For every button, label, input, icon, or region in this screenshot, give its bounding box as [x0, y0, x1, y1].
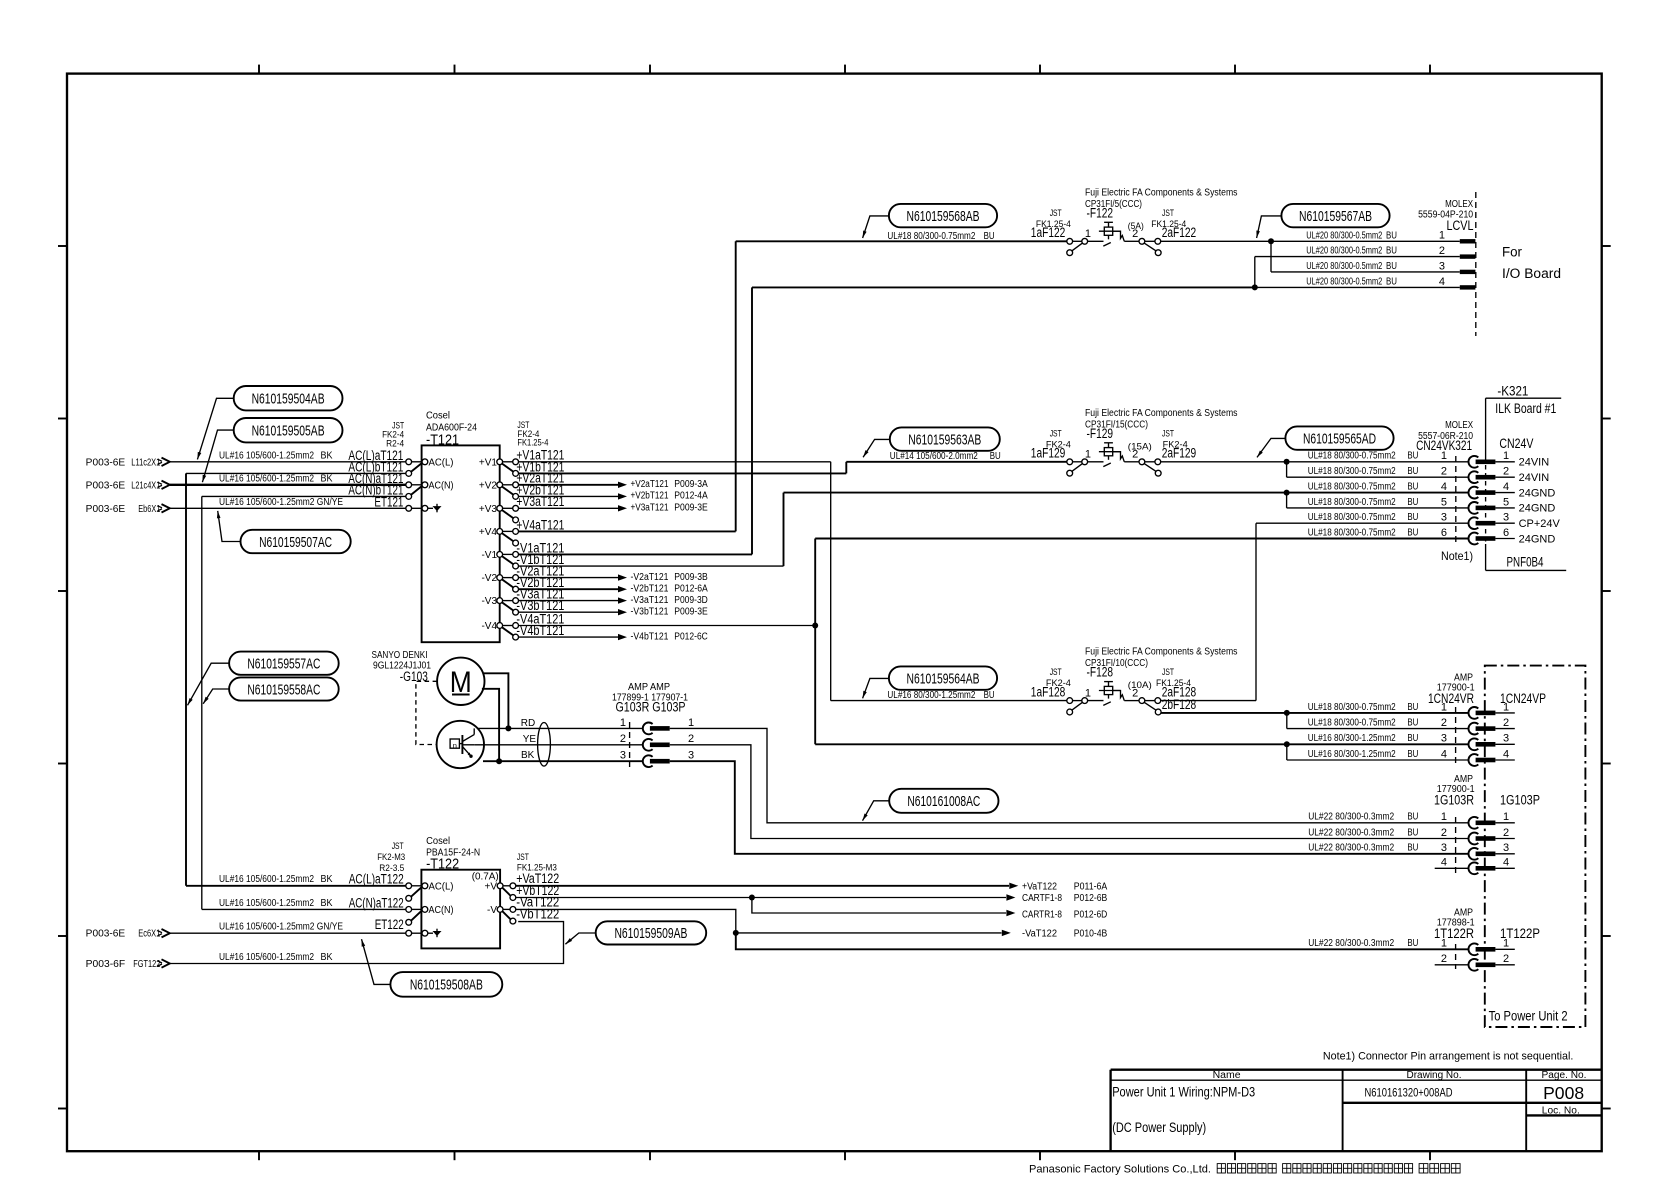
svg-text:UL#20 80/300-0.5mm2: UL#20 80/300-0.5mm2 — [1306, 246, 1382, 257]
title block texts — [1112, 1070, 1586, 1135]
svg-text:1G103R: 1G103R — [1434, 792, 1474, 807]
svg-text:BK: BK — [321, 874, 333, 885]
svg-text:2: 2 — [1439, 245, 1445, 257]
svg-text:UL#16 105/600-1.25mm2: UL#16 105/600-1.25mm2 — [219, 898, 314, 909]
svg-text:AC(L): AC(L) — [429, 881, 454, 892]
svg-text:2: 2 — [1441, 466, 1447, 478]
svg-text:-V3: -V3 — [481, 596, 497, 607]
svg-text:UL#16 105/600-1.25mm2: UL#16 105/600-1.25mm2 — [219, 952, 314, 963]
svg-text:1T122R: 1T122R — [1434, 926, 1474, 941]
svg-text:UL#16 105/600-1.25mm2 GN/YE: UL#16 105/600-1.25mm2 GN/YE — [219, 497, 343, 508]
svg-text:N610159568AB: N610159568AB — [907, 208, 980, 225]
svg-text:JST: JST — [517, 852, 529, 862]
svg-text:1: 1 — [1085, 449, 1091, 461]
svg-text:UL#16 105/600-1.25mm2: UL#16 105/600-1.25mm2 — [219, 451, 314, 462]
svg-text:5: 5 — [1503, 496, 1509, 508]
JST FK2-4 R2-4 labels — [382, 421, 404, 449]
svg-text:-T121: -T121 — [426, 432, 459, 449]
svg-text:P012-6C: P012-6C — [674, 631, 708, 642]
svg-text:P012-6B: P012-6B — [1074, 893, 1108, 904]
connector G103R G103P AMP labels — [612, 682, 688, 715]
svg-text:2: 2 — [1503, 953, 1509, 965]
svg-text:UL#16 105/600-1.25mm2: UL#16 105/600-1.25mm2 — [219, 874, 314, 885]
svg-text:Note1) Connector Pin arrangeme: Note1) Connector Pin arrangement is not … — [1323, 1050, 1574, 1062]
svg-text:BU: BU — [1386, 230, 1397, 241]
svg-text:N610159557AC: N610159557AC — [247, 656, 320, 673]
svg-text:UL#18 80/300-0.75mm2: UL#18 80/300-0.75mm2 — [1308, 718, 1396, 729]
svg-text:CN24VK321: CN24VK321 — [1416, 438, 1472, 453]
svg-text:AC(N): AC(N) — [429, 905, 454, 916]
node junction LCVL pin1/pin3 branch — [1268, 238, 1460, 272]
svg-text:BU: BU — [1407, 812, 1418, 823]
svg-text:FK1.25-4: FK1.25-4 — [517, 437, 548, 447]
svg-text:6: 6 — [1503, 527, 1509, 539]
connector CN24VK321 title labels — [1416, 420, 1473, 453]
svg-text:Cosel: Cosel — [426, 411, 450, 422]
svg-text:N610159563AB: N610159563AB — [908, 431, 981, 448]
svg-text:BU: BU — [984, 231, 995, 242]
svg-text:UL#18 80/300-0.75mm2: UL#18 80/300-0.75mm2 — [1308, 466, 1396, 477]
label -V1bT121 wire to riser x783.5 — [516, 552, 783, 567]
svg-text:2: 2 — [1503, 717, 1509, 729]
motor M circle G103 — [437, 658, 484, 705]
svg-text:SANYO DENKI: SANYO DENKI — [372, 650, 428, 661]
svg-text:BU: BU — [1407, 827, 1418, 838]
wire -V1a return net riser to LCVL row — [752, 287, 1255, 554]
svg-text:BU: BU — [1407, 938, 1418, 949]
svg-text:-VbT122: -VbT122 — [516, 907, 559, 922]
svg-text:ET122: ET122 — [375, 917, 404, 932]
svg-text:-G103: -G103 — [400, 669, 428, 684]
callout N610159509AB — [565, 921, 706, 944]
svg-text:(DC Power Supply): (DC Power Supply) — [1112, 1120, 1206, 1135]
power supply U T122 Cosel PBA15F-24-N box — [421, 870, 500, 949]
svg-text:Fuji Electric FA Components &: Fuji Electric FA Components & Systems — [1085, 647, 1238, 658]
wire fuse F129 output to CN24VK321 pin1 — [1160, 461, 1468, 463]
svg-text:-V: -V — [487, 905, 497, 916]
wire G103P pin2 to 1G103R pin2 — [670, 745, 1469, 839]
connector 1T122R/1T122P AMP 177898-1 — [1308, 938, 1515, 971]
wire FGT122 to -VbT122 — [170, 922, 564, 964]
svg-text:1: 1 — [1441, 811, 1447, 823]
svg-text:Cosel: Cosel — [426, 836, 450, 847]
svg-text:P011-6A: P011-6A — [1074, 881, 1108, 892]
JST FK1.25-M3 labels T122 output — [517, 852, 557, 872]
svg-text:UL#14 105/600-2.0mm2: UL#14 105/600-2.0mm2 — [890, 451, 978, 462]
svg-text:AC(N)aT122: AC(N)aT122 — [349, 895, 404, 910]
node junction 1CN24VR pin3/pin4 — [1284, 741, 1469, 760]
svg-text:P003-6E: P003-6E — [86, 929, 126, 940]
svg-text:4: 4 — [1441, 857, 1447, 869]
svg-text:1aF122: 1aF122 — [1031, 225, 1066, 240]
wire AC(N)aT122 from riser — [202, 908, 406, 910]
svg-text:P012-4A: P012-4A — [674, 491, 708, 502]
svg-text:JST: JST — [1162, 428, 1174, 438]
svg-text:3: 3 — [1503, 512, 1509, 524]
wire ET122 — [170, 932, 406, 934]
svg-text:1CN24VP: 1CN24VP — [1500, 691, 1546, 706]
svg-text:PNF0B4: PNF0B4 — [1507, 555, 1544, 570]
ILK board labels — [1495, 384, 1556, 570]
svg-text:UL#22 80/300-0.3mm2: UL#22 80/300-0.3mm2 — [1308, 938, 1394, 949]
wire +V4a net to fuse F122 (riser and top run) — [736, 241, 1067, 531]
svg-text:BU: BU — [1407, 702, 1418, 713]
callout N610159564AB — [863, 666, 998, 698]
svg-text:2aF129: 2aF129 — [1162, 446, 1197, 461]
svg-text:G103R G103P: G103R G103P — [616, 700, 686, 715]
svg-text:-V2aT121: -V2aT121 — [631, 572, 669, 583]
svg-text:AC(L): AC(L) — [429, 457, 454, 468]
node junction -V4a joins 24GND riser — [812, 623, 818, 629]
svg-text:BU: BU — [1386, 277, 1397, 288]
callout N610159563AB — [863, 427, 1000, 457]
svg-text:-V4bT121: -V4bT121 — [516, 623, 564, 638]
svg-text:UL#16 80/300-1.25mm2: UL#16 80/300-1.25mm2 — [1308, 733, 1396, 744]
svg-text:2: 2 — [1441, 827, 1447, 839]
node junction LCVL pin4/pin2 branch — [1252, 257, 1460, 291]
label +V2aT121 and arrow P009-3A — [516, 471, 708, 490]
svg-text:BU: BU — [1407, 482, 1418, 493]
wire +V1aT121 riser down to F128 — [518, 462, 1067, 701]
connector 1CN24VR/1CN24VP AMP 177900-1 — [1308, 701, 1515, 766]
power supply U T121 Cosel ADA600F-24 box — [422, 445, 500, 642]
svg-text:-V2bT121: -V2bT121 — [631, 584, 669, 595]
node junction CARTR branch — [749, 895, 1107, 921]
wire to 1T122R pin1 — [736, 933, 1469, 949]
svg-text:JST: JST — [1050, 208, 1062, 218]
svg-text:UL#20 80/300-0.5mm2: UL#20 80/300-0.5mm2 — [1306, 261, 1382, 272]
svg-text:+V4aT121: +V4aT121 — [516, 517, 564, 532]
label +V1aT121 — [516, 448, 564, 463]
svg-text:+V3aT121: +V3aT121 — [516, 494, 564, 509]
svg-text:2: 2 — [1441, 953, 1447, 965]
cable bundle oval — [538, 723, 551, 767]
svg-text:ILK Board #1: ILK Board #1 — [1495, 401, 1556, 416]
svg-text:+V3aT121: +V3aT121 — [631, 503, 669, 514]
entry P003-6E Ec6X1 — [86, 929, 170, 940]
svg-text:-F128: -F128 — [1087, 665, 1114, 680]
svg-text:UL#22 80/300-0.3mm2: UL#22 80/300-0.3mm2 — [1308, 812, 1394, 823]
svg-text:BU: BU — [1407, 527, 1418, 538]
svg-text:CARTR1-8: CARTR1-8 — [1022, 909, 1062, 920]
svg-text:P003-6E: P003-6E — [86, 480, 126, 491]
svg-text:1aF129: 1aF129 — [1031, 446, 1066, 461]
svg-text:(0.7A): (0.7A) — [472, 871, 499, 882]
callout N610159557AC — [188, 652, 339, 706]
svg-text:UL#16 80/300-1.25mm2: UL#16 80/300-1.25mm2 — [887, 690, 975, 701]
svg-text:+V2bT121: +V2bT121 — [631, 491, 669, 502]
svg-text:L21c4X1: L21c4X1 — [131, 480, 160, 491]
connector 1T122R labels — [1434, 908, 1540, 941]
svg-text:N610159558AC: N610159558AC — [247, 681, 320, 698]
svg-text:N610159504AB: N610159504AB — [252, 391, 325, 408]
svg-text:To Power Unit 2: To Power Unit 2 — [1489, 1009, 1568, 1024]
fuse F122 5A circuit breaker — [1067, 222, 1161, 255]
svg-text:BK: BK — [321, 952, 333, 963]
wire -V1b 24GND riser to CN24VK321 pin4 — [784, 493, 1469, 566]
label -V3bT121 and arrow P009-3E — [516, 598, 708, 617]
svg-text:P012-6A: P012-6A — [674, 584, 708, 595]
svg-text:P009-3E: P009-3E — [674, 607, 708, 618]
label +VaT122 wire and arrow P011-6A — [516, 871, 1108, 892]
wire 24GND net riser x815 to CN24VK321 pin6 — [815, 539, 1468, 745]
wire fuse F128 2b output to 1CN24VR pin1 — [1161, 712, 1469, 714]
svg-text:Page. No.: Page. No. — [1542, 1070, 1587, 1081]
svg-text:+VaT122: +VaT122 — [1022, 881, 1057, 892]
svg-text:CN24V: CN24V — [1499, 435, 1533, 451]
connector G103R/G103P pins 1-3 — [620, 717, 694, 767]
svg-text:+V4: +V4 — [479, 527, 498, 538]
label -V3aT121 and arrow P009-3D — [516, 587, 707, 606]
svg-text:5: 5 — [1441, 496, 1447, 508]
svg-text:-V3bT121: -V3bT121 — [631, 607, 669, 618]
svg-text:BU: BU — [1407, 512, 1418, 523]
svg-text:n: n — [453, 741, 457, 750]
svg-text:N610159507AC: N610159507AC — [259, 534, 332, 551]
svg-text:1: 1 — [1439, 230, 1445, 242]
ground symbol T122 PE — [428, 929, 442, 938]
svg-text:BU: BU — [990, 451, 1001, 462]
wire label UL#14 for F129 input — [890, 451, 1001, 462]
label For I/O Board — [1502, 245, 1561, 281]
entry P003-6F FGT122 — [86, 959, 170, 970]
svg-text:UL#16 80/300-1.25mm2: UL#16 80/300-1.25mm2 — [1308, 749, 1396, 760]
svg-text:BU: BU — [1407, 497, 1418, 508]
svg-text:4: 4 — [1441, 748, 1447, 760]
svg-text:1G103P: 1G103P — [1500, 792, 1540, 807]
label +V3aT121 and arrow P009-3E — [516, 494, 708, 513]
callout N610161008AC — [863, 789, 999, 821]
svg-text:3: 3 — [1441, 512, 1447, 524]
svg-text:BK: BK — [321, 451, 333, 462]
svg-text:+V1: +V1 — [479, 457, 498, 468]
callout N610159508AB — [362, 939, 503, 996]
svg-text:MOLEX: MOLEX — [1445, 420, 1473, 431]
svg-text:P009-3B: P009-3B — [674, 572, 708, 583]
node junction 1CN24VR pin1/pin2 — [1284, 710, 1469, 729]
svg-text:UL#18 80/300-0.75mm2: UL#18 80/300-0.75mm2 — [1308, 482, 1396, 493]
svg-text:2aF122: 2aF122 — [1162, 225, 1197, 240]
svg-text:BU: BU — [1407, 466, 1418, 477]
label -VaT122 wire jog and arrow P010-4B — [516, 895, 1108, 940]
svg-text:Loc. No.: Loc. No. — [1542, 1106, 1580, 1117]
svg-text:24VIN: 24VIN — [1519, 472, 1550, 484]
svg-text:P008: P008 — [1543, 1083, 1584, 1103]
svg-text:UL#18 80/300-0.75mm2: UL#18 80/300-0.75mm2 — [887, 231, 975, 242]
svg-text:P009-3A: P009-3A — [674, 479, 708, 490]
terminals T122 output pins — [497, 883, 516, 924]
svg-text:UL#18 80/300-0.75mm2: UL#18 80/300-0.75mm2 — [1308, 512, 1396, 523]
svg-text:2: 2 — [1441, 717, 1447, 729]
svg-text:UL#16 105/600-1.25mm2: UL#16 105/600-1.25mm2 — [219, 474, 314, 485]
svg-text:N610159505AB: N610159505AB — [252, 423, 325, 440]
title block — [1111, 1070, 1602, 1152]
label -V4aT121 wire to 24GND junction — [516, 611, 815, 626]
svg-text:P010-4B: P010-4B — [1074, 928, 1108, 939]
svg-text:ET121: ET121 — [374, 495, 403, 510]
svg-text:BU: BU — [1407, 843, 1418, 854]
entry P003-6E Eb6X1 — [86, 504, 170, 515]
svg-text:1: 1 — [1503, 450, 1509, 462]
JST FK2-4 FK1.25-4 labels T121 output — [517, 420, 548, 447]
svg-text:Power Unit 1 Wiring:NPM-D3: Power Unit 1 Wiring:NPM-D3 — [1112, 1084, 1255, 1099]
svg-text:1aF128: 1aF128 — [1031, 684, 1066, 699]
svg-text:2: 2 — [1503, 466, 1509, 478]
sensor internals: n box and phototransistor — [450, 728, 474, 758]
callout N610159504AB — [197, 386, 342, 459]
svg-text:BU: BU — [1386, 261, 1397, 272]
svg-text:+V2aT121: +V2aT121 — [631, 479, 669, 490]
wire YE to G103R pin2 — [474, 744, 643, 746]
svg-text:3: 3 — [620, 750, 626, 762]
svg-text:+V3: +V3 — [479, 504, 498, 515]
svg-text:2: 2 — [688, 733, 694, 745]
svg-text:FK2-M3: FK2-M3 — [377, 852, 405, 862]
svg-text:BU: BU — [1407, 749, 1418, 760]
svg-text:4: 4 — [1439, 276, 1445, 288]
big labels AC(L)aT122 AC(N)aT122 ET122 — [349, 872, 404, 933]
wire AC(L)aT122 from riser — [186, 885, 406, 887]
svg-text:-K321: -K321 — [1497, 384, 1528, 399]
wire fuse F122 output to connector LCVL pin1 — [1160, 240, 1459, 242]
svg-text:2: 2 — [1132, 687, 1138, 699]
svg-text:P003-6F: P003-6F — [86, 959, 126, 970]
svg-text:+V: +V — [484, 881, 497, 892]
svg-text:AC(L)aT122: AC(L)aT122 — [349, 872, 404, 887]
ILK Board #1 -K321 outline — [1486, 398, 1567, 570]
wire motor to BK junction — [482, 689, 502, 764]
svg-text:24GND: 24GND — [1519, 503, 1556, 515]
svg-text:3: 3 — [688, 750, 694, 762]
callout N610159568AB — [863, 204, 998, 238]
fuse F129 labels — [1031, 408, 1238, 461]
wire AC(N)aT121 — [170, 484, 406, 486]
svg-text:1T122P: 1T122P — [1500, 926, 1540, 941]
svg-text:6: 6 — [1441, 527, 1447, 539]
T122 part name labels — [426, 836, 480, 872]
svg-text:CARTF1-8: CARTF1-8 — [1022, 893, 1062, 904]
svg-text:2: 2 — [620, 733, 626, 745]
label -V1aT121 wire to riser x752 — [516, 540, 752, 555]
svg-text:24VIN: 24VIN — [1519, 457, 1550, 469]
svg-text:N610159567AB: N610159567AB — [1299, 208, 1372, 225]
svg-text:2: 2 — [1132, 449, 1138, 461]
JST FK2-M3 R2-3.5 labels — [377, 841, 405, 873]
svg-text:1: 1 — [688, 717, 694, 729]
wire AC(N)bT121 riser to T122 — [202, 496, 406, 909]
wire AC(L)bT121 riser to T122 — [186, 473, 406, 885]
connector 1CN24VR labels — [1428, 673, 1546, 706]
svg-text:Fuji Electric FA Components &: Fuji Electric FA Components & Systems — [1085, 408, 1238, 419]
svg-text:-F122: -F122 — [1087, 205, 1114, 220]
fuse F128 10A circuit breaker — [1067, 682, 1161, 715]
fuse F122 labels — [1031, 187, 1238, 240]
label +V1bT121 — [516, 459, 564, 474]
labels RD YE BK — [521, 718, 537, 761]
svg-text:1: 1 — [1503, 811, 1509, 823]
callout N610159558AC — [203, 677, 339, 703]
svg-text:Ec6X1: Ec6X1 — [138, 929, 160, 940]
svg-text:-V2: -V2 — [481, 573, 497, 584]
svg-text:4: 4 — [1441, 481, 1447, 493]
svg-text:3: 3 — [1441, 733, 1447, 745]
svg-text:-V1: -V1 — [481, 550, 497, 561]
svg-text:R2-4: R2-4 — [386, 439, 404, 449]
svg-text:BK: BK — [321, 474, 333, 485]
wire BK to G103R pin3 — [483, 760, 643, 762]
callout N610159565AD — [1257, 426, 1394, 457]
svg-text:1: 1 — [1085, 687, 1091, 699]
connector CN24VK321 MOLEX 5557-06R-210 pins — [1308, 450, 1561, 545]
svg-text:2: 2 — [1132, 228, 1138, 240]
svg-text:JST: JST — [1162, 667, 1174, 677]
svg-text:MOLEX: MOLEX — [1445, 199, 1473, 210]
svg-text:4: 4 — [1503, 857, 1509, 869]
svg-text:JST: JST — [1050, 667, 1062, 677]
svg-text:-V3aT121: -V3aT121 — [631, 595, 669, 606]
svg-text:Drawing No.: Drawing No. — [1407, 1070, 1462, 1081]
svg-text:P003-6E: P003-6E — [86, 504, 126, 515]
svg-text:BU: BU — [1386, 246, 1397, 257]
svg-text:UL#18 80/300-0.75mm2: UL#18 80/300-0.75mm2 — [1308, 451, 1396, 462]
svg-text:UL#18 80/300-0.75mm2: UL#18 80/300-0.75mm2 — [1308, 527, 1396, 538]
svg-text:1: 1 — [620, 717, 626, 729]
wire label UL#16 for F128 input — [887, 690, 994, 701]
svg-text:I/O Board: I/O Board — [1502, 266, 1561, 281]
svg-text:For: For — [1502, 245, 1522, 260]
entry P003-6E L11c2X1 — [86, 457, 170, 468]
entry P003-6E L21c4X1 — [86, 480, 170, 491]
svg-text:Name: Name — [1213, 1070, 1241, 1081]
wire motor to RD junction — [484, 673, 512, 731]
svg-text:JST: JST — [1050, 428, 1062, 438]
svg-text:P009-3D: P009-3D — [674, 595, 708, 606]
wire labels UL#16 input rows — [219, 451, 343, 509]
ground symbol T121 PE — [428, 504, 442, 513]
label -V2bT121 and arrow P012-6A — [516, 575, 708, 594]
fan motor G103 SANYO DENKI labels — [372, 650, 432, 684]
svg-text:1CN24VR: 1CN24VR — [1428, 691, 1474, 706]
svg-text:24GND: 24GND — [1519, 533, 1556, 545]
svg-text:N610159564AB: N610159564AB — [907, 670, 980, 687]
svg-text:UL#20 80/300-0.5mm2: UL#20 80/300-0.5mm2 — [1306, 277, 1382, 288]
svg-text:2bF128: 2bF128 — [1162, 697, 1197, 712]
svg-text:-T122: -T122 — [426, 855, 459, 872]
svg-text:UL#18 80/300-0.75mm2: UL#18 80/300-0.75mm2 — [1308, 702, 1396, 713]
label +V2bT121 and arrow P012-4A — [516, 482, 708, 501]
svg-text:Note1): Note1) — [1441, 549, 1473, 563]
wire 24GND to 1CN24VR pin3 — [815, 743, 1468, 745]
svg-text:BK: BK — [321, 898, 333, 909]
To Power Unit 2 dash-dot boundary box — [1485, 666, 1586, 1027]
svg-text:R2-3.5: R2-3.5 — [379, 863, 404, 873]
svg-text:3: 3 — [1503, 733, 1509, 745]
wire AC(L)aT121 — [170, 461, 406, 463]
svg-text:Fuji Electric FA Components &: Fuji Electric FA Components & Systems — [1085, 187, 1238, 198]
fuse F129 15A circuit breaker — [1067, 443, 1161, 476]
svg-text:Eb6X1: Eb6X1 — [138, 504, 160, 515]
label -VbT122 — [516, 907, 559, 922]
svg-text:24GND: 24GND — [1519, 487, 1556, 499]
svg-text:LCVL: LCVL — [1447, 218, 1474, 233]
svg-text:P009-3E: P009-3E — [674, 503, 708, 514]
T122 pin labels — [429, 871, 499, 916]
wire G103P pin1 to 1G103R pin1 — [670, 728, 1469, 822]
terminals T121 AC input pins — [406, 459, 428, 511]
label +VbT122 wire and arrow CARTF1-8 P012-6B — [516, 883, 1108, 904]
callout N610159507AC — [217, 511, 351, 553]
svg-text:N610161320+008AD: N610161320+008AD — [1365, 1085, 1453, 1099]
